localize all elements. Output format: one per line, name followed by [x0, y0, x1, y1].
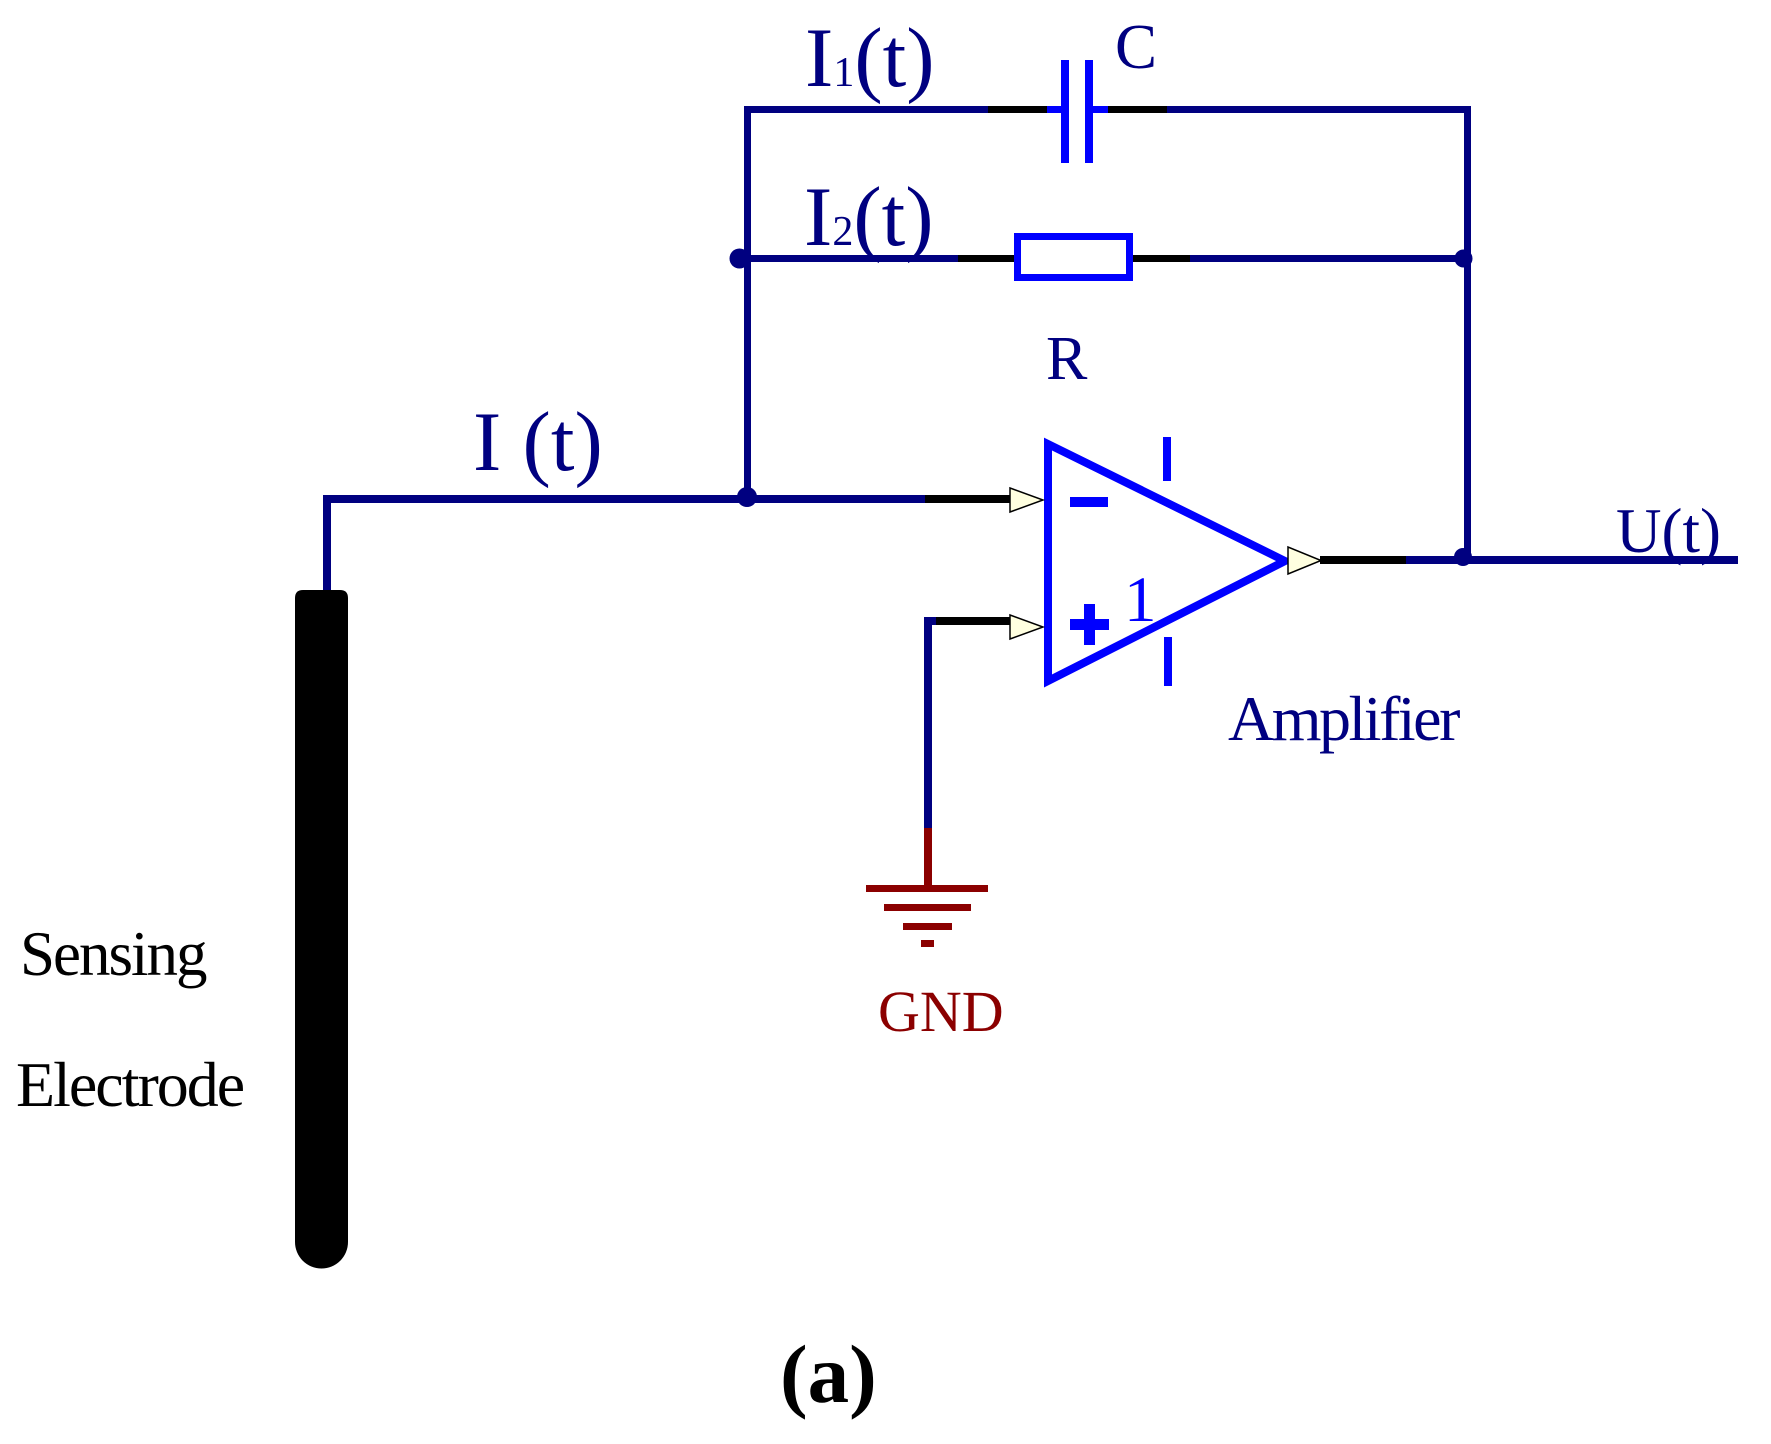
svg-text:1: 1 — [1124, 564, 1157, 636]
svg-text:I2(t): I2(t) — [804, 170, 934, 264]
svg-text:Electrode: Electrode — [16, 1049, 244, 1120]
svg-text:(a): (a) — [780, 1328, 877, 1420]
svg-text:U(t): U(t) — [1616, 496, 1721, 566]
svg-text:C: C — [1115, 12, 1157, 82]
svg-text:I1(t): I1(t) — [805, 11, 935, 105]
svg-text:R: R — [1046, 325, 1088, 393]
svg-text:I (t): I (t) — [473, 395, 603, 489]
svg-text:Sensing: Sensing — [20, 919, 207, 989]
svg-text:GND: GND — [878, 979, 1004, 1044]
svg-text:Amplifier: Amplifier — [1228, 683, 1460, 754]
